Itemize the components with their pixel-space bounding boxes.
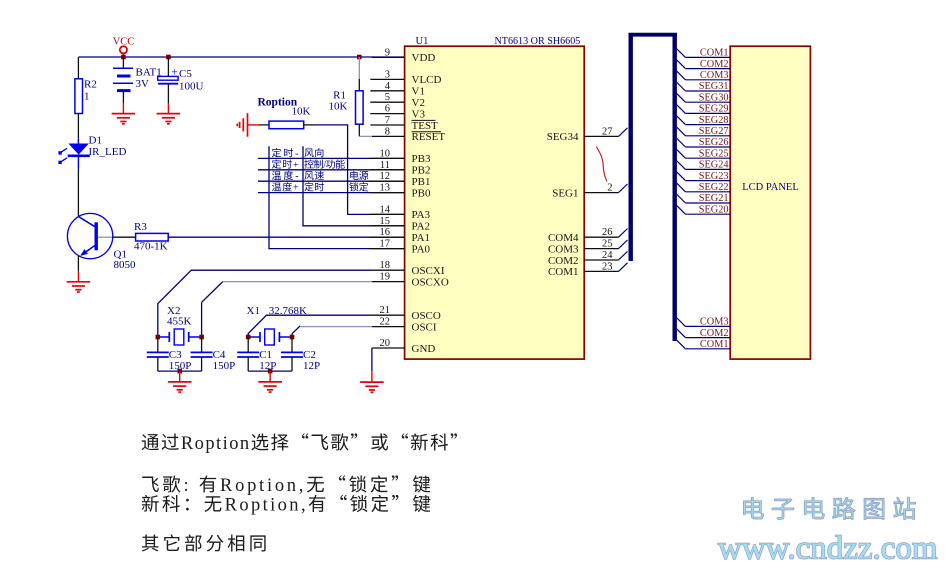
svg-text:-: - bbox=[295, 148, 300, 159]
node VCC junction at R1 bbox=[357, 55, 362, 60]
svg-text:IR_LED: IR_LED bbox=[89, 146, 127, 158]
svg-text:SEG23: SEG23 bbox=[699, 171, 729, 182]
svg-text:470-1K: 470-1K bbox=[134, 241, 168, 253]
capacitor C2 12P bbox=[291, 337, 293, 352]
node X2 right bbox=[199, 335, 204, 340]
table text row 1 bbox=[272, 148, 281, 157]
net SEG27 to LCD bbox=[677, 127, 686, 136]
wire C5 to ground bbox=[167, 84, 169, 103]
svg-text:PA3: PA3 bbox=[412, 209, 431, 221]
table text row 2 bbox=[272, 159, 281, 168]
net SEG30 to LCD bbox=[677, 94, 686, 103]
pin 6 V3 bbox=[370, 113, 404, 115]
capacitor C3 150P bbox=[157, 337, 159, 352]
svg-text:13: 13 bbox=[380, 183, 391, 194]
svg-text:SEG31: SEG31 bbox=[699, 81, 729, 92]
wire Q1 base to R3 bbox=[98, 236, 112, 238]
svg-text:PB2: PB2 bbox=[412, 165, 431, 177]
svg-text:PB3: PB3 bbox=[412, 153, 431, 165]
pin 18 OSCXI bbox=[372, 269, 405, 271]
svg-text:SEG25: SEG25 bbox=[699, 148, 729, 159]
net SEG31 to LCD bbox=[677, 83, 686, 92]
svg-text:SEG20: SEG20 bbox=[699, 204, 729, 215]
svg-text:16: 16 bbox=[380, 227, 391, 238]
ground below X1 bbox=[269, 371, 271, 382]
svg-text:SEG27: SEG27 bbox=[699, 126, 729, 137]
svg-text:-: - bbox=[295, 171, 300, 182]
svg-text:25: 25 bbox=[602, 239, 613, 250]
pin 26 COM4 bbox=[584, 236, 618, 238]
svg-text:21: 21 bbox=[380, 305, 391, 316]
svg-text:TEST: TEST bbox=[412, 120, 439, 132]
svg-text:SEG30: SEG30 bbox=[699, 92, 729, 103]
wire D1 to Q1 bbox=[77, 169, 79, 216]
svg-text:Roption: Roption bbox=[181, 434, 251, 454]
net SEG22 to LCD bbox=[677, 183, 686, 192]
svg-text:OSCO: OSCO bbox=[412, 310, 441, 322]
svg-text:32.768K: 32.768K bbox=[269, 305, 307, 317]
svg-text:SEG24: SEG24 bbox=[699, 160, 729, 171]
crystal X1 32.768K bbox=[248, 336, 260, 338]
svg-text:SEG22: SEG22 bbox=[699, 182, 729, 193]
pin 2 SEG1 bbox=[584, 192, 618, 194]
wire VCC rail bbox=[78, 56, 404, 58]
net SEG25 to LCD bbox=[677, 150, 686, 159]
svg-text:R1: R1 bbox=[333, 90, 346, 102]
svg-text:LCD PANEL: LCD PANEL bbox=[742, 182, 799, 193]
svg-text:Roption,: Roption, bbox=[220, 476, 306, 496]
svg-text:COM3: COM3 bbox=[548, 243, 579, 255]
pin 24 COM2 bbox=[584, 259, 618, 261]
svg-text:COM2: COM2 bbox=[700, 59, 729, 70]
svg-text:C4: C4 bbox=[213, 349, 226, 361]
resistor Roption bbox=[259, 124, 269, 126]
svg-text:COM1: COM1 bbox=[700, 48, 729, 59]
pin 20 GND bbox=[372, 347, 405, 349]
svg-text:COM2: COM2 bbox=[548, 255, 579, 267]
wire R3 to PA1 pin 16 bbox=[168, 236, 404, 238]
ground below BAT1 bbox=[122, 103, 124, 114]
svg-text:VLCD: VLCD bbox=[412, 74, 442, 86]
svg-text:18: 18 bbox=[380, 260, 391, 271]
svg-text:GND: GND bbox=[412, 343, 436, 355]
pin 15 PA2 bbox=[370, 225, 404, 227]
svg-text:R3: R3 bbox=[134, 221, 147, 233]
wire Q1 emitter to ground bbox=[77, 256, 79, 271]
svg-text:COM2: COM2 bbox=[700, 328, 729, 339]
pin 10 PB3 bbox=[370, 157, 404, 159]
wire X1 left node to OSCO pin 21 bbox=[248, 315, 372, 337]
svg-text:V2: V2 bbox=[412, 97, 425, 109]
node X1 right bbox=[290, 335, 295, 340]
svg-text:PA1: PA1 bbox=[412, 232, 431, 244]
svg-text:10K: 10K bbox=[329, 101, 348, 113]
svg-text:23: 23 bbox=[602, 261, 613, 272]
wire PB0 pin 13 bbox=[258, 192, 405, 194]
net SEG26 to LCD bbox=[677, 139, 686, 148]
pin 4 V1 bbox=[370, 90, 404, 92]
wire R1 to RESET pin 8 bbox=[358, 124, 360, 136]
net SEG23 to LCD bbox=[677, 172, 686, 181]
note line 3 bbox=[142, 495, 159, 512]
svg-text:OSCXI: OSCXI bbox=[412, 265, 445, 277]
node X1 left bbox=[246, 335, 251, 340]
svg-text:5: 5 bbox=[385, 92, 390, 103]
svg-text:10K: 10K bbox=[292, 106, 311, 118]
pin 9 VDD bbox=[372, 56, 405, 58]
wire GND pin 20 to ground bbox=[371, 348, 373, 371]
svg-text:11: 11 bbox=[380, 160, 390, 171]
svg-text:8: 8 bbox=[385, 126, 390, 137]
svg-text:1: 1 bbox=[84, 91, 90, 103]
svg-text:7: 7 bbox=[385, 115, 390, 126]
svg-text:8050: 8050 bbox=[114, 259, 137, 271]
LED emission arrows bbox=[61, 148, 68, 152]
pin 19 OSCXO bbox=[372, 281, 405, 283]
resistor R1 bbox=[356, 91, 364, 124]
svg-text:C2: C2 bbox=[303, 349, 316, 361]
svg-text:RESET: RESET bbox=[412, 131, 446, 143]
svg-text:COM3: COM3 bbox=[700, 70, 729, 81]
svg-text:14: 14 bbox=[380, 204, 391, 215]
svg-text:27: 27 bbox=[602, 126, 613, 137]
svg-text:C5: C5 bbox=[179, 68, 192, 80]
svg-text:COM3: COM3 bbox=[700, 317, 729, 328]
svg-text:2: 2 bbox=[607, 183, 612, 194]
svg-text:SEG26: SEG26 bbox=[699, 137, 729, 148]
net COM1 to LCD bottom bbox=[677, 340, 686, 349]
note line 1 bbox=[142, 434, 159, 450]
transistor Q1 8050 bbox=[67, 213, 112, 258]
node X2 ground junction bbox=[177, 369, 182, 374]
pin 25 COM3 bbox=[584, 248, 618, 250]
ground below X2 bbox=[179, 371, 181, 382]
node X2 left bbox=[156, 335, 161, 340]
svg-text:PA2: PA2 bbox=[412, 221, 431, 233]
pin 23 COM1 bbox=[584, 270, 618, 272]
op-amp U1 NT6613 OR SH6605 IC body bbox=[405, 46, 585, 359]
svg-text::: : bbox=[184, 476, 192, 496]
svg-text:SEG34: SEG34 bbox=[547, 131, 579, 143]
resistor R3 bbox=[136, 233, 169, 241]
svg-text:SEG28: SEG28 bbox=[699, 115, 729, 126]
svg-text:COM4: COM4 bbox=[548, 232, 579, 244]
svg-text:15: 15 bbox=[380, 216, 391, 227]
pin 11 PB2 bbox=[370, 169, 404, 171]
svg-text:COM1: COM1 bbox=[700, 339, 729, 350]
resistor R2 bbox=[75, 79, 83, 114]
watermark site name bbox=[744, 497, 764, 519]
wire VCC to R2 bbox=[77, 57, 79, 79]
svg-text:Roption,: Roption, bbox=[225, 496, 308, 516]
svg-text:OSCXO: OSCXO bbox=[412, 276, 449, 288]
node VCC junction at C5 bbox=[166, 55, 171, 60]
capacitor C1 12P bbox=[247, 337, 249, 352]
wire PB2 pin 11 bbox=[258, 169, 405, 171]
table vertical line to PA2 pin 15 bbox=[303, 146, 405, 226]
svg-text:20: 20 bbox=[380, 338, 391, 349]
svg-text:10: 10 bbox=[380, 148, 391, 159]
net SEG21 to LCD bbox=[677, 195, 686, 204]
svg-text:6: 6 bbox=[385, 104, 390, 115]
pin 7 TEST bbox=[370, 124, 404, 126]
net SEG24 to LCD bbox=[677, 161, 686, 170]
svg-text:26: 26 bbox=[602, 227, 613, 238]
net COM2 to LCD bbox=[677, 60, 686, 69]
omitted-pins squiggle bbox=[596, 147, 607, 182]
svg-text:12P: 12P bbox=[303, 360, 320, 372]
pin 27 SEG34 bbox=[584, 135, 618, 137]
svg-text:17: 17 bbox=[380, 239, 391, 250]
wire X1 ground rail bbox=[248, 370, 292, 372]
svg-text:PB1: PB1 bbox=[412, 176, 431, 188]
net COM3 to LCD bbox=[677, 71, 686, 80]
ground below Q1 bbox=[77, 271, 79, 282]
pin 22 OSCI bbox=[372, 326, 405, 328]
svg-text:NT6613 OR SH6605: NT6613 OR SH6605 bbox=[495, 36, 581, 47]
pin 3 VLCD bbox=[370, 78, 404, 80]
svg-text:SEG29: SEG29 bbox=[699, 104, 729, 115]
svg-text:4: 4 bbox=[385, 81, 391, 92]
svg-text:C1: C1 bbox=[259, 349, 272, 361]
net COM3 to LCD bottom bbox=[677, 318, 686, 327]
svg-text:PB0: PB0 bbox=[412, 187, 431, 199]
svg-text:COM1: COM1 bbox=[548, 266, 579, 278]
net COM1 to LCD bbox=[677, 49, 686, 58]
wire X2 right node to OSCXO pin 19 bbox=[201, 302, 203, 337]
svg-text:9: 9 bbox=[385, 47, 390, 58]
svg-text:PA0: PA0 bbox=[412, 243, 431, 255]
node X1 ground junction bbox=[268, 369, 273, 374]
pin 16 PA1 bbox=[370, 236, 404, 238]
table text row 3 bbox=[272, 171, 281, 180]
svg-text:U1: U1 bbox=[416, 36, 429, 47]
svg-text:www.cndzz.com: www.cndzz.com bbox=[718, 531, 938, 567]
svg-text:3: 3 bbox=[385, 69, 390, 80]
ground at chip GND bbox=[371, 371, 373, 382]
svg-text:12P: 12P bbox=[259, 360, 276, 372]
svg-text:100U: 100U bbox=[179, 81, 204, 93]
svg-text:D1: D1 bbox=[89, 135, 102, 147]
wire PB3 pin 10 bbox=[258, 157, 405, 159]
svg-text:3V: 3V bbox=[136, 78, 150, 90]
diode D1 IR_LED bbox=[77, 139, 79, 144]
pin 14 PA3 bbox=[370, 213, 404, 215]
svg-text:19: 19 bbox=[380, 272, 391, 283]
pin 13 PB0 bbox=[370, 192, 404, 194]
svg-text:V1: V1 bbox=[412, 86, 425, 98]
svg-text:22: 22 bbox=[380, 317, 391, 328]
net COM2 to LCD bottom bbox=[677, 329, 686, 338]
pin 5 V2 bbox=[370, 101, 404, 103]
net SEG29 to LCD bbox=[677, 105, 686, 114]
svg-text:SEG1: SEG1 bbox=[552, 187, 578, 199]
wire X2 ground rail bbox=[158, 370, 202, 372]
wire X1 right node to OSCI pin 22 bbox=[291, 334, 293, 337]
svg-text:150P: 150P bbox=[213, 360, 236, 372]
ground below C5 bbox=[167, 103, 169, 114]
crystal X2 455K bbox=[158, 336, 170, 338]
wire VCC to BAT1 bbox=[122, 57, 124, 68]
svg-text:+: + bbox=[293, 183, 299, 194]
battery BAT1 bbox=[113, 67, 133, 69]
wire VCC to R1 bbox=[358, 57, 360, 79]
svg-text:VDD: VDD bbox=[412, 52, 436, 64]
wire BAT1 to ground bbox=[122, 91, 124, 103]
node VCC junction at battery bbox=[121, 55, 126, 60]
net SEG20 to LCD bbox=[677, 206, 686, 215]
table text row 4 bbox=[272, 182, 281, 191]
svg-text:SEG21: SEG21 bbox=[699, 193, 729, 204]
bus from U1 to LCD panel bbox=[629, 33, 633, 261]
note line 2 bbox=[142, 477, 159, 492]
svg-text:C3: C3 bbox=[169, 349, 182, 361]
pin 17 PA0 bbox=[370, 248, 404, 250]
pin 8 RESET bbox=[372, 135, 405, 137]
wire R2 to D1 bbox=[77, 114, 79, 139]
svg-text:OSCI: OSCI bbox=[412, 321, 437, 333]
svg-text:12: 12 bbox=[380, 171, 391, 182]
pin 12 PB1 bbox=[370, 180, 404, 182]
wire PB1 pin 12 bbox=[258, 180, 405, 182]
table vertical line to PA0 pin 17 bbox=[269, 146, 405, 248]
svg-text:455K: 455K bbox=[167, 315, 192, 327]
net SEG28 to LCD bbox=[677, 116, 686, 125]
LCD PANEL body bbox=[730, 46, 810, 359]
svg-text:24: 24 bbox=[602, 250, 613, 261]
wire Roption to PA3 pin 14 bbox=[304, 124, 315, 126]
svg-text:+: + bbox=[293, 160, 299, 171]
wire VCC to C5 bbox=[167, 57, 169, 76]
svg-text:V3: V3 bbox=[412, 108, 426, 120]
note line 4 bbox=[142, 534, 159, 551]
svg-text:X1: X1 bbox=[247, 305, 260, 317]
pin 21 OSCO bbox=[372, 314, 405, 316]
wire X2 left node to OSCXI pin 18 bbox=[158, 270, 372, 337]
svg-text:R2: R2 bbox=[84, 79, 97, 91]
ground at Roption bbox=[248, 124, 259, 126]
capacitor C4 150P bbox=[201, 337, 203, 352]
